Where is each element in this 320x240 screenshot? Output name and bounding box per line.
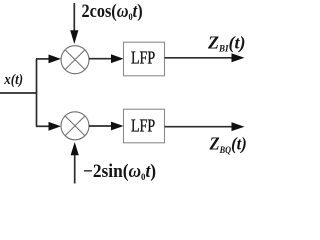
arrowhead into bottom LFP bbox=[111, 122, 124, 131]
arrowhead into bottom mixer (right) bbox=[49, 122, 62, 131]
mixer M1 cross bbox=[65, 50, 85, 70]
arrowhead into top mixer (right) bbox=[49, 55, 62, 64]
svg-text:LFP: LFP bbox=[131, 117, 155, 136]
wire: branch vertical bbox=[36, 59, 38, 126]
mixer M1 (top) circle bbox=[61, 46, 89, 74]
arrowhead top output bbox=[232, 53, 245, 62]
wire: x(t) input horizontal bbox=[0, 92, 37, 94]
block: top LFP box bbox=[124, 42, 165, 76]
arrowhead into top mixer (down) bbox=[70, 30, 78, 44]
arrowhead bottom output bbox=[232, 122, 245, 131]
svg-text:2cos(ω0t): 2cos(ω0t) bbox=[82, 0, 143, 22]
block: bottom LFP box bbox=[124, 109, 165, 143]
svg-text:LFP: LFP bbox=[131, 49, 155, 68]
wire: top mixer to LFP bbox=[89, 58, 111, 60]
wire: carrier down into top mixer bbox=[73, 3, 75, 33]
svg-text:−2sin(ω0t): −2sin(ω0t) bbox=[83, 160, 156, 182]
wire: carrier up into bottom mixer bbox=[74, 153, 76, 184]
wire: top output arrow bbox=[165, 57, 234, 59]
svg-text:x(t): x(t) bbox=[3, 72, 23, 88]
wire: top branch to mixer bbox=[36, 58, 50, 60]
wire: bottom mixer to LFP bbox=[89, 125, 111, 127]
arrowhead into bottom mixer (up) bbox=[71, 142, 79, 155]
mixer M2 cross bbox=[65, 116, 85, 136]
wire: bottom output arrow bbox=[165, 126, 234, 128]
wire: bottom branch to mixer bbox=[36, 125, 50, 127]
arrowhead into top LFP bbox=[111, 54, 124, 63]
mixer M2 (bottom) circle bbox=[61, 112, 89, 140]
